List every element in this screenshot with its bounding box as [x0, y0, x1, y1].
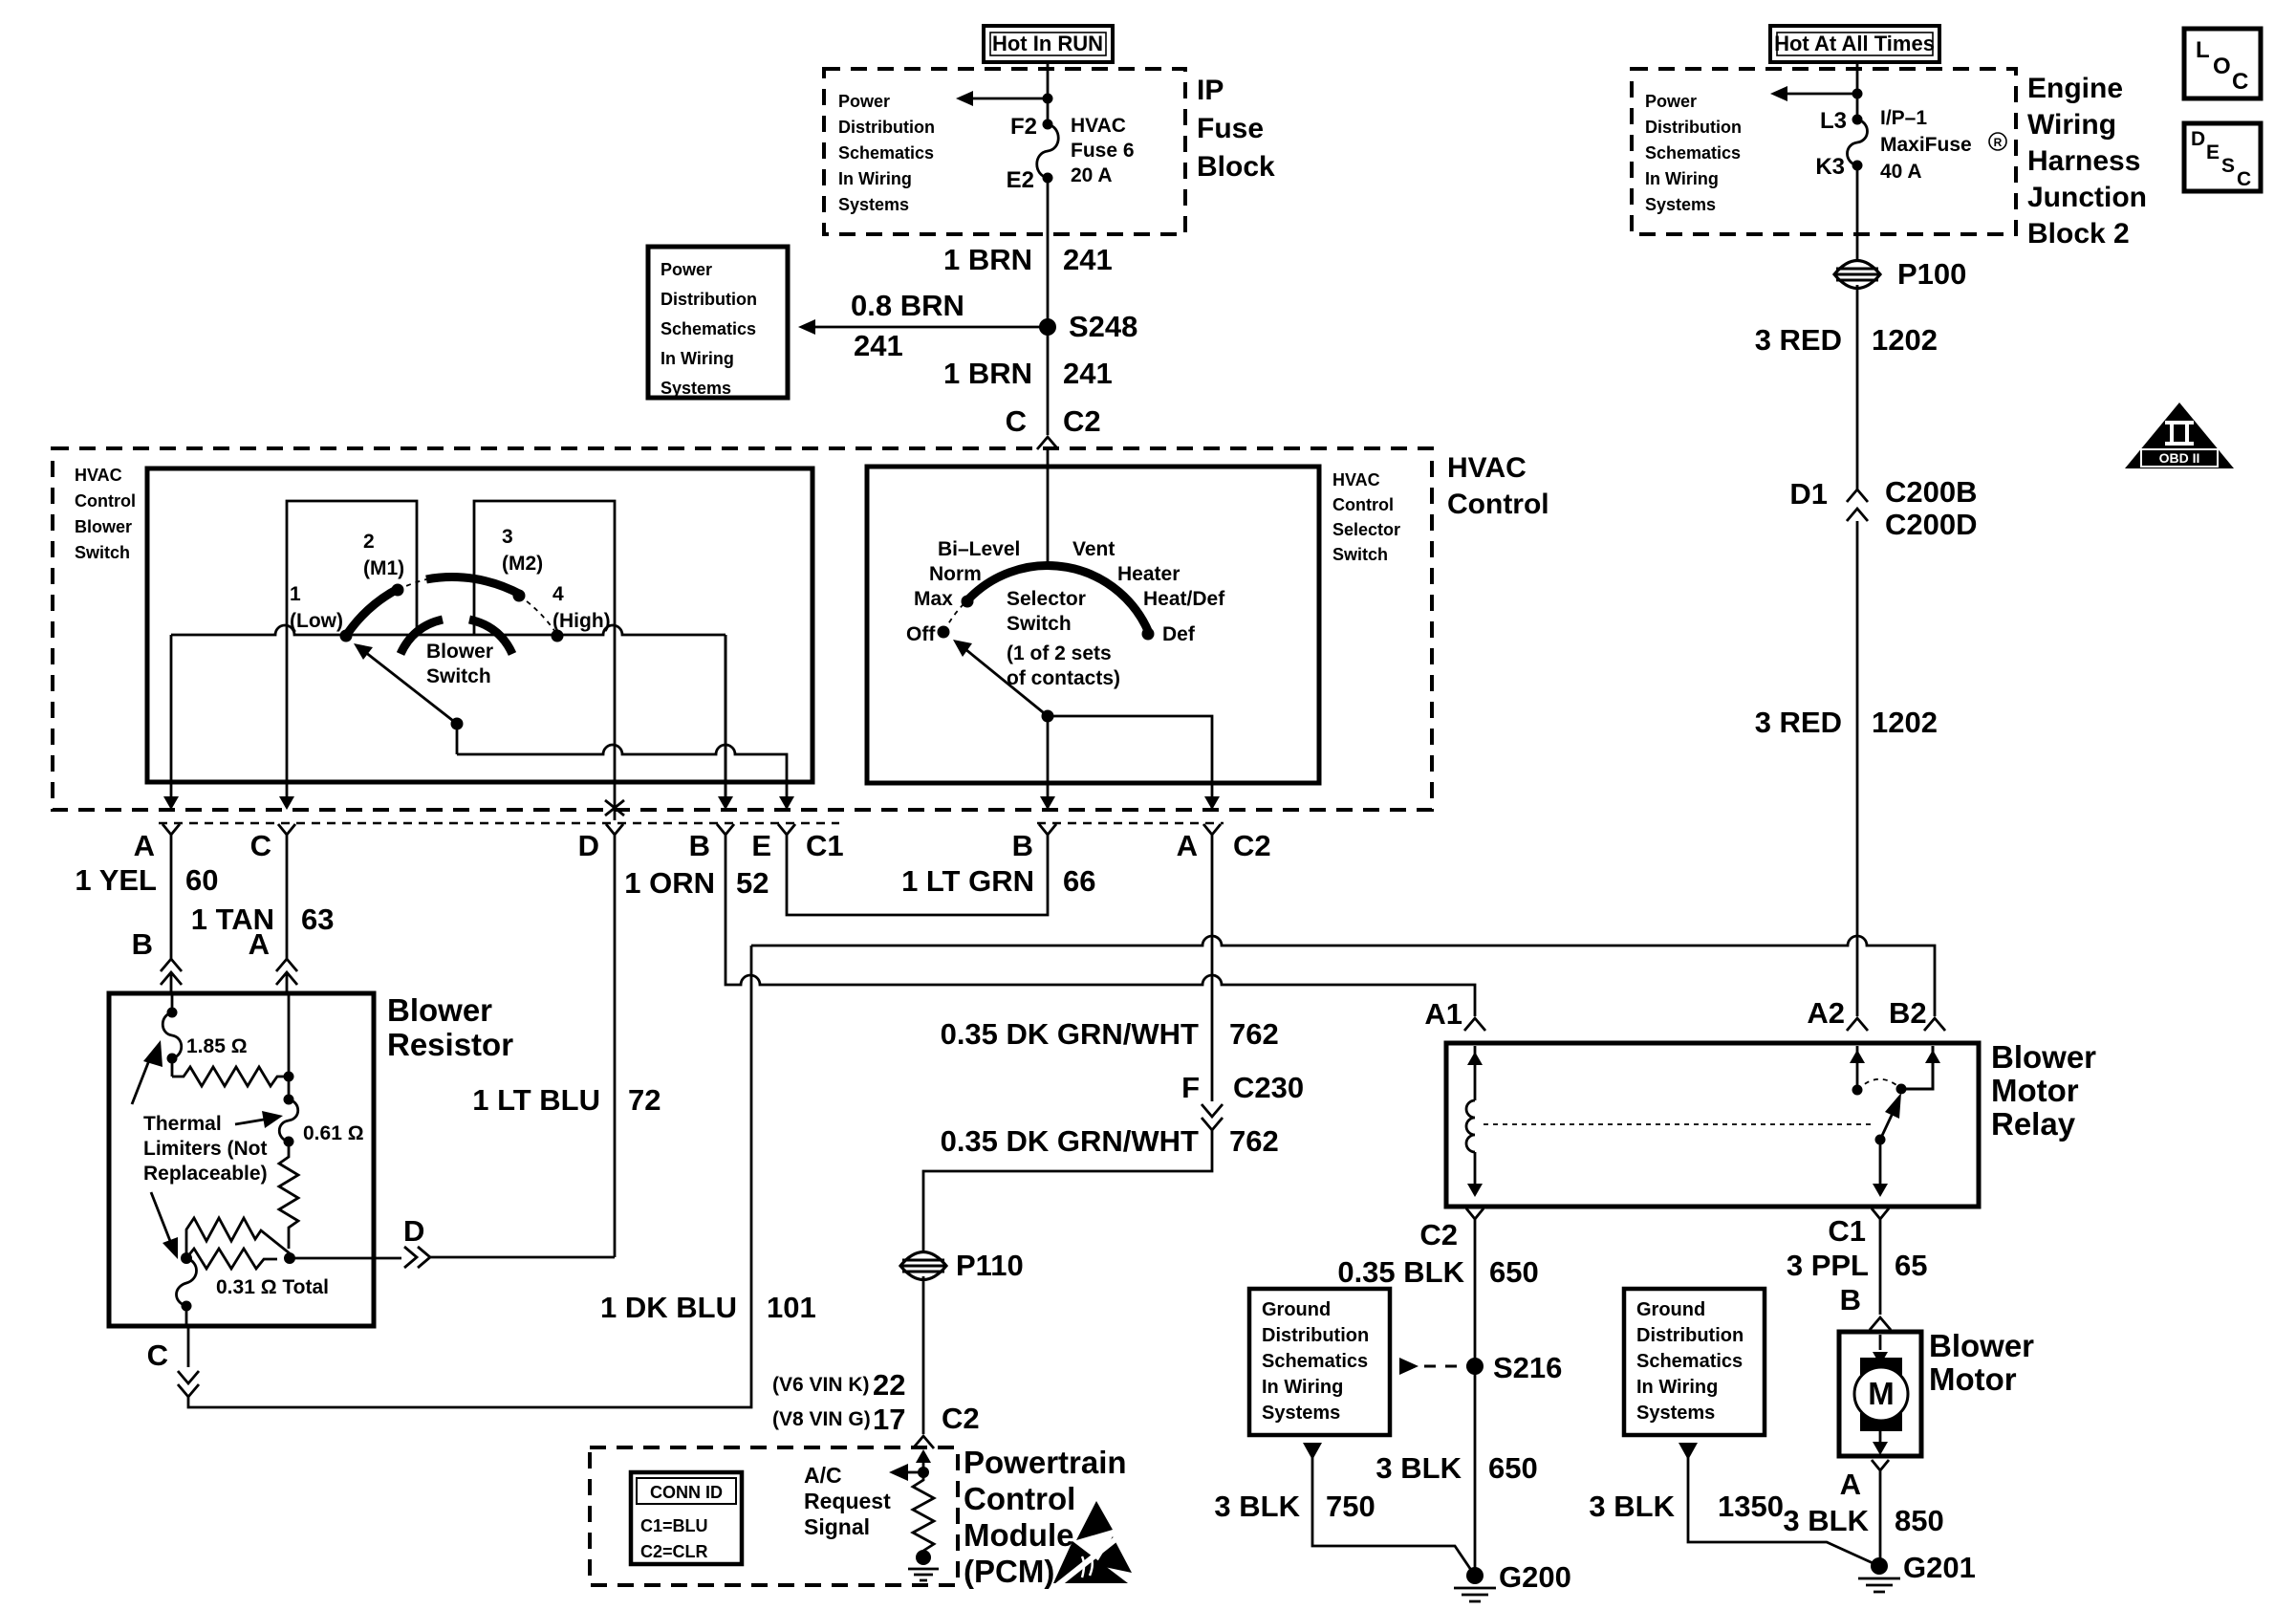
connector C1 pin C chevron: [278, 824, 295, 845]
pass-through grommet P100: [1834, 257, 1966, 291]
svg-text:IP: IP: [1197, 75, 1224, 106]
svg-text:3 PPL: 3 PPL: [1787, 1249, 1869, 1282]
fuse value label HVAC Fuse 6 20 A: [1071, 115, 1135, 186]
wire label 3 RED 1202 (upper): [1755, 323, 1938, 357]
selector Max contact dot: [962, 596, 974, 608]
wire 0.35 BLK 650: [1474, 1230, 1477, 1576]
svg-text:D: D: [403, 1214, 424, 1248]
blower resistor box: [109, 993, 374, 1326]
svg-text:I/P–1: I/P–1: [1880, 107, 1927, 129]
thermal limiter 1: [162, 993, 182, 1064]
label HVAC Control Selector Switch: [1332, 470, 1400, 564]
svg-text:E2: E2: [1007, 167, 1034, 193]
svg-text:E: E: [2206, 141, 2220, 163]
svg-text:G201: G201: [1903, 1551, 1976, 1584]
pass-through grommet P110: [900, 1249, 1024, 1282]
label 3 BLK 750: [1214, 1490, 1375, 1523]
svg-text:In Wiring: In Wiring: [1645, 169, 1719, 188]
connector C1 pin A chevron: [162, 824, 180, 845]
resistor 1.85 ohm zigzag: [172, 1058, 289, 1086]
svg-text:Blower: Blower: [426, 641, 493, 663]
svg-text:1 YEL: 1 YEL: [75, 863, 157, 897]
svg-text:(Low): (Low): [290, 610, 343, 632]
svg-text:Engine: Engine: [2027, 73, 2123, 104]
CONN ID table: [631, 1472, 742, 1564]
wire P100 to C200: [1856, 285, 1859, 490]
label 1 TAN 63: [191, 903, 335, 936]
relay contact B2: [1896, 1046, 1941, 1095]
svg-text:1 BRN: 1 BRN: [943, 357, 1032, 390]
MaxiFuse I/P-1 40A: [1848, 115, 1868, 171]
svg-text:G200: G200: [1499, 1560, 1571, 1594]
label 1 ORN 52: [624, 866, 769, 900]
wire 1 LT BLU 72 (pin D down): [614, 845, 617, 1257]
svg-text:(1 of 2 sets: (1 of 2 sets: [1007, 642, 1112, 664]
svg-text:O: O: [2213, 54, 2231, 79]
pointer arrow to limiter 1: [132, 1040, 162, 1104]
svg-text:B: B: [1840, 1283, 1861, 1316]
svg-text:Def: Def: [1162, 623, 1196, 645]
svg-text:(V8 VIN G): (V8 VIN G): [772, 1408, 871, 1430]
svg-text:C230: C230: [1233, 1071, 1304, 1104]
blower switch inner arc right: [469, 620, 512, 654]
label (V8 VIN G) 17: [772, 1403, 905, 1436]
PCM pull-up resistor: [913, 1472, 934, 1551]
selector wiper arrow: [953, 640, 1054, 723]
svg-text:Distribution: Distribution: [838, 118, 935, 137]
contact 4 dot: [552, 630, 564, 642]
svg-text:Blower: Blower: [387, 992, 492, 1028]
svg-text:Module: Module: [964, 1517, 1073, 1553]
svg-text:20 A: 20 A: [1071, 164, 1113, 186]
svg-text:Distribution: Distribution: [1262, 1325, 1369, 1346]
svg-text:Power: Power: [661, 260, 712, 279]
svg-text:A: A: [249, 927, 270, 961]
label Powertrain Control Module (PCM): [964, 1445, 1127, 1589]
blower switch dashed arc M1: [398, 579, 426, 590]
svg-text:L: L: [2196, 37, 2210, 63]
svg-text:0.31 Ω Total: 0.31 Ω Total: [216, 1276, 329, 1298]
selector arc: [967, 566, 1149, 633]
svg-text:Power: Power: [838, 92, 890, 111]
relay switch wiper: [1875, 1093, 1902, 1145]
wire fuse to S248: [1047, 178, 1050, 327]
svg-text:1 DK BLU: 1 DK BLU: [600, 1291, 737, 1324]
connector D inline chevrons: [404, 1247, 430, 1268]
svg-text:1: 1: [290, 583, 301, 605]
DESC legend box: [2184, 123, 2261, 191]
wire 1 DK BLU 101: [188, 946, 751, 1407]
selector dashed arc Off-Max: [944, 600, 967, 631]
wire label 3 RED 1202 (lower): [1755, 706, 1938, 739]
note Power Distribution Schematics (IP): [838, 92, 935, 214]
wire S248 to connector C: [1047, 327, 1050, 435]
Engine Wiring Harness Junction Block 2 dashed box: [1632, 69, 2016, 234]
connector C1 pin D chevron: [606, 824, 623, 845]
wire selector pin A exit: [1204, 796, 1220, 810]
wire 0.35 DK GRN/WHT selector A to C230: [1211, 845, 1214, 1101]
node resistor tap 2: [284, 1252, 295, 1264]
ground G200: [1454, 1560, 1571, 1601]
wire label 1 BRN 241 (lower): [943, 357, 1113, 390]
ground distribution box 1: [1249, 1289, 1390, 1435]
svg-text:M: M: [1868, 1376, 1895, 1411]
relay pin B2 chevron: [1924, 1018, 1945, 1031]
label 0.35 BLK 650: [1337, 1255, 1538, 1289]
connector C2 pin B chevron: [1039, 824, 1056, 845]
connector C1 pin E chevron: [778, 824, 795, 845]
A/C request signal arrow: [889, 1464, 929, 1481]
label Blower Resistor: [387, 992, 513, 1062]
svg-text:MaxiFuse: MaxiFuse: [1880, 134, 1972, 156]
svg-text:1202: 1202: [1872, 323, 1938, 357]
svg-text:P110: P110: [956, 1249, 1024, 1282]
svg-text:Distribution: Distribution: [1645, 118, 1742, 137]
wire 1 DK BLU to relay B2 (horizontal): [751, 936, 1935, 1016]
svg-text:C: C: [1006, 404, 1027, 438]
svg-text:D: D: [578, 829, 599, 862]
svg-text:A/C: A/C: [804, 1463, 842, 1488]
svg-text:C1: C1: [1828, 1214, 1866, 1248]
svg-text:P100: P100: [1897, 257, 1966, 291]
svg-text:Switch: Switch: [75, 543, 130, 562]
svg-text:C: C: [2237, 168, 2251, 190]
svg-text:HVAC: HVAC: [1332, 470, 1380, 490]
svg-text:40 A: 40 A: [1880, 161, 1922, 183]
svg-text:Fuse 6: Fuse 6: [1071, 140, 1135, 162]
svg-text:Hot In RUN: Hot In RUN: [992, 32, 1103, 55]
svg-text:C2: C2: [942, 1402, 980, 1435]
thermal limiter 2: [279, 1077, 298, 1147]
blower motor box: [1839, 1332, 1921, 1456]
svg-text:A: A: [1177, 829, 1198, 862]
svg-text:Signal: Signal: [804, 1514, 870, 1539]
svg-text:60: 60: [185, 863, 218, 897]
svg-text:Heat/Def: Heat/Def: [1143, 588, 1225, 610]
svg-text:F2: F2: [1010, 114, 1037, 140]
svg-text:762: 762: [1229, 1124, 1279, 1158]
wire from Hot At All Times: [1856, 62, 1859, 120]
Power Distribution Schematics box: [648, 247, 788, 398]
svg-text:65: 65: [1895, 1249, 1927, 1282]
PCM input arrow: [916, 1449, 931, 1470]
thermal limiter 3: [177, 1258, 197, 1326]
ESD symbol: [1053, 1501, 1132, 1587]
label Blower Switch: [426, 641, 493, 687]
arrow to power distribution (junction block): [1770, 86, 1863, 101]
label 3 BLK 850: [1783, 1504, 1943, 1537]
label Thermal Limiters (Not Replaceable): [143, 1113, 268, 1185]
svg-text:3 RED: 3 RED: [1755, 323, 1842, 357]
connector C inline chevrons: [178, 1371, 199, 1397]
OBD II symbol: [2125, 402, 2234, 468]
svg-text:650: 650: [1489, 1255, 1539, 1289]
svg-text:HVAC: HVAC: [1071, 115, 1126, 137]
svg-text:Blower: Blower: [1991, 1039, 2096, 1075]
svg-text:E: E: [751, 829, 771, 862]
dashed arrow to S216: [1399, 1358, 1468, 1375]
motor pin A chevron: [1872, 1460, 1889, 1482]
resistor 0.61 ohm vertical zigzag: [279, 1142, 298, 1249]
wire 1 TAN 63: [286, 845, 289, 960]
selector Def contact dot: [1142, 628, 1155, 641]
IP Fuse Block dashed box: [824, 69, 1185, 234]
wire resistor D output: [290, 1257, 401, 1260]
svg-text:In Wiring: In Wiring: [1636, 1377, 1718, 1398]
selector wiper to pin B wire: [1047, 716, 1050, 808]
svg-text:850: 850: [1895, 1504, 1944, 1537]
svg-text:C200D: C200D: [1885, 508, 1978, 541]
svg-text:Control: Control: [75, 491, 136, 511]
label (V6 VIN K) 22: [772, 1368, 905, 1402]
wire 3 PPL 65: [1879, 1230, 1882, 1315]
svg-text:(V6 VIN K): (V6 VIN K): [772, 1374, 870, 1396]
svg-text:C: C: [250, 829, 271, 862]
svg-text:22: 22: [873, 1368, 905, 1402]
svg-text:1 ORN: 1 ORN: [624, 866, 715, 900]
svg-text:(M2): (M2): [502, 553, 543, 575]
contact 3 (M2) dot: [513, 590, 526, 602]
svg-text:0.35 DK GRN/WHT: 0.35 DK GRN/WHT: [941, 1017, 1199, 1051]
svg-text:66: 66: [1063, 864, 1095, 898]
svg-text:B: B: [132, 927, 153, 961]
wire resistor C output: [187, 1326, 190, 1367]
svg-text:Request: Request: [804, 1489, 891, 1513]
svg-text:C2: C2: [1233, 829, 1271, 862]
label 3 BLK 1350: [1589, 1490, 1784, 1523]
svg-text:1 LT GRN: 1 LT GRN: [901, 864, 1034, 898]
contact 2 (M1) dot: [392, 584, 404, 597]
svg-text:HVAC: HVAC: [75, 466, 122, 485]
svg-text:Schematics: Schematics: [661, 319, 756, 338]
label 3 BLK 650: [1375, 1451, 1537, 1485]
svg-text:C1=BLU: C1=BLU: [640, 1516, 708, 1535]
arrow to power distribution (IP): [956, 91, 1053, 106]
svg-text:L3: L3: [1820, 108, 1847, 134]
label Blower Motor Relay: [1991, 1039, 2096, 1142]
wire row1 (contacts 1-4 to pins A and B): [171, 625, 726, 635]
svg-text:Limiters (Not: Limiters (Not: [143, 1138, 268, 1160]
resistor pin B double chevron: [161, 959, 182, 993]
svg-text:Replaceable): Replaceable): [143, 1163, 268, 1185]
relay pin C2 chevron: [1466, 1208, 1484, 1230]
wire 3 BLK 1350: [1679, 1443, 1879, 1566]
svg-text:17: 17: [873, 1403, 905, 1436]
label 1 YEL 60: [75, 863, 218, 897]
svg-text:Wiring: Wiring: [2027, 109, 2116, 141]
svg-text:Systems: Systems: [1636, 1403, 1715, 1424]
svg-text:HVAC: HVAC: [1447, 452, 1527, 484]
selector switch box: [867, 467, 1319, 783]
svg-text:C1: C1: [806, 829, 844, 862]
svg-text:C2: C2: [1419, 1218, 1458, 1251]
blower switch wiper arrow: [354, 643, 464, 730]
svg-text:B: B: [1012, 829, 1033, 862]
svg-text:Ground: Ground: [1636, 1299, 1705, 1320]
svg-text:In Wiring: In Wiring: [661, 349, 734, 368]
svg-text:0.61 Ω: 0.61 Ω: [303, 1122, 364, 1144]
svg-text:3 BLK: 3 BLK: [1589, 1490, 1675, 1523]
ground G201: [1858, 1551, 1976, 1592]
wire P110 to PCM: [922, 1276, 925, 1434]
relay pin C1 chevron: [1872, 1208, 1889, 1230]
label 1 LT GRN 66: [901, 864, 1095, 898]
svg-text:C: C: [147, 1338, 168, 1372]
fuse value label I/P-1 MaxiFuse 40 A: [1880, 107, 2006, 183]
svg-text:Schematics: Schematics: [1262, 1351, 1368, 1372]
svg-text:Junction: Junction: [2027, 182, 2147, 213]
selector Off contact dot: [938, 626, 950, 639]
svg-text:Switch: Switch: [426, 665, 491, 687]
connector C230 pin F: [1181, 1071, 1304, 1130]
fuse F6 HVAC 20A: [1037, 120, 1059, 184]
svg-text:0.35 DK GRN/WHT: 0.35 DK GRN/WHT: [941, 1124, 1199, 1158]
blower switch arc contact1-M1: [348, 588, 400, 633]
wire from Hot In RUN into fuse block: [1047, 62, 1050, 124]
label 1 DK BLU 101: [600, 1291, 816, 1324]
contact 1 dot: [340, 630, 353, 642]
svg-text:OBD II: OBD II: [2159, 450, 2200, 466]
svg-text:Block 2: Block 2: [2027, 218, 2130, 250]
label 0.35 DK GRN/WHT 762 (lower): [941, 1124, 1279, 1158]
wire pin A exit: [163, 635, 179, 810]
svg-text:0.8 BRN: 0.8 BRN: [851, 289, 964, 322]
svg-text:Systems: Systems: [1645, 195, 1716, 214]
svg-text:D: D: [2191, 128, 2205, 150]
connector C200B / C200D: [1789, 475, 1977, 541]
svg-text:2: 2: [363, 531, 375, 553]
blower switch contact loop M2: [474, 501, 615, 635]
label 3 (M2): [502, 526, 543, 575]
svg-text:Motor: Motor: [1991, 1073, 2079, 1108]
svg-text:3 BLK: 3 BLK: [1214, 1490, 1300, 1523]
connector C2 fine dashed line: [1037, 822, 1224, 825]
svg-text:C2=CLR: C2=CLR: [640, 1542, 708, 1561]
svg-text:Blower: Blower: [1929, 1328, 2034, 1363]
label IP Fuse Block: [1197, 75, 1275, 183]
svg-text:Off: Off: [906, 623, 936, 645]
Powertrain Control Module dashed box: [590, 1447, 958, 1585]
svg-text:4: 4: [552, 583, 564, 605]
svg-text:3: 3: [502, 526, 513, 548]
svg-text:Switch: Switch: [1007, 613, 1072, 635]
svg-text:Bi–Level: Bi–Level: [938, 538, 1020, 560]
label "Hot In RUN" box: [984, 26, 1113, 62]
svg-text:Control: Control: [1447, 489, 1549, 520]
wire 1 ORN 52 to relay A1: [726, 845, 1475, 1016]
blower switch inner arc left: [401, 620, 443, 654]
svg-text:R: R: [1994, 136, 2003, 149]
svg-text:B: B: [689, 829, 710, 862]
label Selector Switch (1 of 2 sets of contacts): [1007, 588, 1120, 689]
svg-text:52: 52: [736, 866, 769, 900]
svg-text:1 LT BLU: 1 LT BLU: [472, 1083, 600, 1117]
wire label 1 BRN 241 (upper): [943, 243, 1113, 276]
wire 1 YEL 60: [170, 845, 173, 960]
svg-text:3 RED: 3 RED: [1755, 706, 1842, 739]
svg-text:In Wiring: In Wiring: [1262, 1377, 1343, 1398]
svg-text:(PCM): (PCM): [964, 1554, 1054, 1589]
svg-text:K3: K3: [1815, 154, 1845, 180]
svg-text:101: 101: [767, 1291, 816, 1324]
ground distribution box 2: [1624, 1289, 1765, 1435]
svg-text:Schematics: Schematics: [838, 143, 934, 163]
connector C1 fine dashed line: [159, 822, 839, 825]
svg-text:Powertrain: Powertrain: [964, 1445, 1127, 1480]
svg-text:Selector: Selector: [1332, 520, 1400, 539]
relay pin A2 chevron: [1847, 1018, 1868, 1031]
svg-text:241: 241: [1063, 357, 1113, 390]
svg-text:63: 63: [301, 903, 334, 936]
label 3 PPL 65: [1787, 1249, 1928, 1282]
node resistor left tap: [181, 1252, 192, 1264]
label 1 LT BLU 72: [472, 1083, 661, 1117]
wire 3 BLK 850: [1879, 1482, 1882, 1566]
connector C1 pin B chevron: [717, 824, 734, 845]
svg-text:Systems: Systems: [661, 379, 731, 398]
svg-text:Hot At All Times: Hot At All Times: [1774, 32, 1935, 55]
svg-text:1202: 1202: [1872, 706, 1938, 739]
label Blower Motor: [1929, 1328, 2034, 1397]
pointer arrow to limiter 2: [235, 1111, 283, 1128]
svg-text:Resistor: Resistor: [387, 1027, 513, 1062]
blower motor relay box: [1446, 1043, 1979, 1207]
svg-text:(High): (High): [552, 610, 611, 632]
svg-text:Relay: Relay: [1991, 1106, 2076, 1142]
svg-text:3 BLK: 3 BLK: [1375, 1451, 1462, 1485]
svg-text:In Wiring: In Wiring: [838, 169, 912, 188]
label Engine Wiring Harness Junction Block 2: [2027, 73, 2147, 250]
blower switch dashed arc M2 to 4: [519, 596, 557, 635]
svg-text:A: A: [134, 829, 155, 862]
svg-text:Thermal: Thermal: [143, 1113, 222, 1135]
svg-text:Ground: Ground: [1262, 1299, 1331, 1320]
label 0.35 DK GRN/WHT 762 (upper): [941, 1017, 1279, 1051]
resistor pin A double chevron: [276, 959, 297, 993]
label 2 (M1): [363, 531, 404, 579]
svg-text:1.85 Ω: 1.85 Ω: [186, 1035, 248, 1057]
svg-text:1350: 1350: [1718, 1490, 1784, 1523]
wire pin E exit arrow: [779, 796, 794, 810]
svg-text:(M1): (M1): [363, 557, 404, 579]
svg-text:A1: A1: [1424, 997, 1462, 1031]
label 1 (Low): [290, 583, 343, 632]
splice S216: [1466, 1351, 1562, 1384]
svg-text:F: F: [1181, 1071, 1200, 1104]
blower switch box: [147, 468, 812, 782]
svg-text:Blower: Blower: [75, 517, 132, 536]
svg-text:C2: C2: [1063, 404, 1101, 438]
svg-text:Power: Power: [1645, 92, 1697, 111]
blower switch contact loop M1: [287, 501, 417, 635]
svg-text:S248: S248: [1069, 310, 1137, 343]
HVAC Control dashed box: [53, 448, 1432, 810]
svg-text:650: 650: [1488, 1451, 1538, 1485]
svg-text:750: 750: [1326, 1490, 1375, 1523]
svg-text:of contacts): of contacts): [1007, 667, 1120, 689]
svg-text:Max: Max: [914, 588, 953, 610]
pointer arrow to limiter 3: [151, 1192, 178, 1259]
svg-text:Control: Control: [964, 1481, 1075, 1516]
label A/C Request Signal: [804, 1463, 891, 1539]
wire D connector to pin D vertical: [430, 1256, 615, 1259]
wire 3 BLK 750: [1303, 1443, 1475, 1576]
relay contact A2: [1850, 1046, 1865, 1096]
PCM pin chevron: [913, 1436, 934, 1448]
svg-text:Fuse: Fuse: [1197, 113, 1264, 144]
relay common to C1: [1873, 1140, 1888, 1197]
wire pin C exit: [279, 635, 294, 810]
